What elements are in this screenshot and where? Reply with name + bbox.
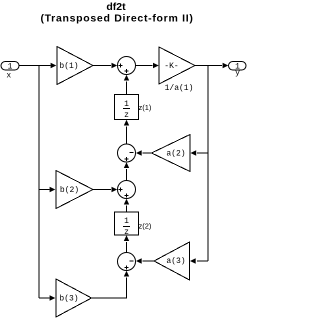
svg-text:b(2): b(2) <box>60 186 79 195</box>
svg-text:z(1): z(1) <box>139 103 152 112</box>
svg-text:1: 1 <box>8 63 13 72</box>
svg-text:z(2): z(2) <box>139 222 152 231</box>
svg-text:1: 1 <box>124 217 129 226</box>
svg-text:b(3): b(3) <box>59 295 78 304</box>
svg-text:a(3): a(3) <box>166 257 185 266</box>
svg-text:-K-: -K- <box>164 62 178 71</box>
svg-text:x: x <box>6 72 11 81</box>
svg-text:1/a(1): 1/a(1) <box>165 84 194 93</box>
svg-text:z: z <box>124 111 129 120</box>
svg-text:1: 1 <box>124 100 129 109</box>
svg-text:a(2): a(2) <box>166 150 185 159</box>
svg-text:df2t: df2t <box>106 1 126 13</box>
svg-text:(Transposed Direct-form II): (Transposed Direct-form II) <box>40 13 193 25</box>
svg-text:z: z <box>124 228 129 237</box>
svg-text:y: y <box>235 69 240 78</box>
svg-text:b(1): b(1) <box>59 62 78 71</box>
